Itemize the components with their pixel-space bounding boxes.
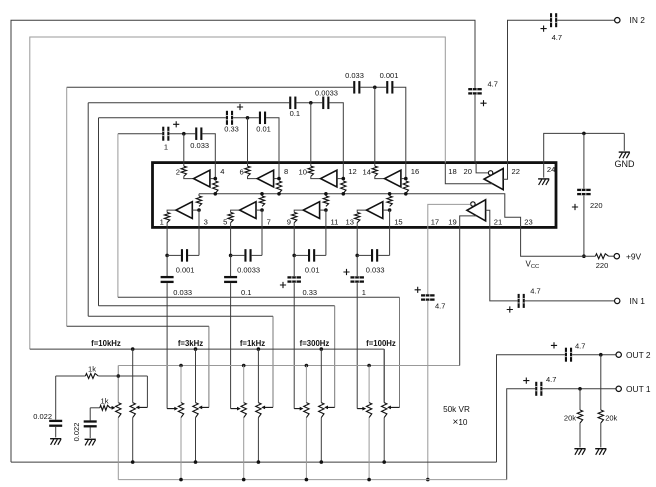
wire cap to pin 14 bbox=[360, 86, 386, 88]
label IN 2 bbox=[630, 15, 646, 25]
op-amp U1c (pins 10/12) bbox=[321, 170, 337, 187]
wire chain right seg bbox=[378, 254, 389, 256]
value label 0.033 bbox=[366, 265, 385, 274]
op-amp U1f (pins 5/7) bbox=[240, 202, 256, 219]
svg-text:0.1: 0.1 bbox=[290, 109, 300, 118]
node chain junction pin 1 bbox=[165, 254, 169, 258]
wire pot1 top (gray) bbox=[180, 366, 182, 403]
wiper arrow VR5A bbox=[387, 406, 399, 410]
node chain junction pin 13 bbox=[355, 254, 359, 258]
wire pot1 bottom (gray) bbox=[180, 418, 182, 480]
wire pin 5 input lead bbox=[230, 223, 232, 228]
wire pin 9 down to chain bbox=[293, 227, 295, 255]
terminal IN 2 bbox=[615, 18, 620, 23]
label Vcc bbox=[526, 260, 540, 271]
wire chain left seg bbox=[294, 254, 308, 256]
ground (20k OUT1) bbox=[574, 448, 585, 455]
svg-text:OUT 2: OUT 2 bbox=[626, 350, 651, 360]
svg-text:3: 3 bbox=[204, 217, 208, 226]
wire 1k-2 left lead bbox=[90, 407, 100, 409]
wire bus A end drop bbox=[383, 349, 385, 403]
svg-text:16: 16 bbox=[411, 167, 419, 176]
wire pin 10 input lead bbox=[310, 163, 312, 167]
capacitor 0.001 (gyrator, stage1b) bbox=[181, 249, 188, 262]
svg-text:f=3kHz: f=3kHz bbox=[178, 339, 203, 348]
label f=3kHz bbox=[178, 339, 203, 348]
ground GND bbox=[619, 151, 630, 158]
wire shunt upper lead bbox=[166, 255, 168, 276]
pin label 7 bbox=[267, 217, 271, 226]
capacitor 4.7 (OUT1 coupling) bbox=[535, 382, 542, 396]
value label 1k bbox=[88, 364, 96, 373]
value label 0.0033 bbox=[315, 88, 338, 97]
wire pin 20 lead bbox=[476, 163, 488, 173]
wire cap to IN2 terminal bbox=[557, 19, 614, 21]
resistor 20k (OUT1 load) bbox=[577, 410, 582, 423]
svg-text:14: 14 bbox=[363, 168, 371, 177]
terminal OUT 1 bbox=[616, 386, 621, 391]
wire 1k-1 to wiper riser bbox=[98, 375, 147, 377]
wire pin 13 input lead bbox=[356, 223, 358, 228]
potentiometer 50k VR4A bbox=[319, 403, 324, 418]
node junction pin 14 bbox=[373, 86, 377, 90]
wire cap to OUT2 terminal bbox=[572, 354, 616, 356]
wire pot2 bottom bbox=[257, 418, 259, 463]
value label 0.022 bbox=[33, 412, 52, 421]
svg-text:7: 7 bbox=[267, 217, 271, 226]
value label 0.001 bbox=[176, 265, 195, 274]
wire pot1 top (gray) bbox=[243, 366, 245, 403]
capacitor 4.7 (pin20 coupling) bbox=[468, 88, 482, 95]
wire pin 3 down lead bbox=[198, 227, 200, 255]
wire pin 6 to op-amp input bbox=[248, 176, 258, 178]
pin label 22 bbox=[512, 167, 520, 176]
wire chain right seg bbox=[315, 254, 326, 256]
wire op-amp output to pin 11 bbox=[320, 209, 326, 211]
op-amp U1g (pins 9/11) bbox=[303, 202, 319, 219]
wire pin 9 to op-amp input bbox=[294, 210, 303, 212]
wire 220 to +9V terminal bbox=[609, 255, 615, 257]
wire rail loop stage1 (descent) bbox=[399, 297, 401, 407]
value label 0.01 bbox=[256, 125, 271, 134]
wiper arrow VR2A bbox=[198, 406, 209, 410]
svg-text:10: 10 bbox=[299, 168, 307, 177]
resistor input R (pin 6) bbox=[245, 166, 250, 176]
value label 0.0033 bbox=[237, 265, 260, 274]
resistor input R (pin 2) bbox=[181, 166, 186, 176]
wire feedback R to bus bbox=[198, 194, 200, 196]
resistor input R (pin 5) bbox=[228, 212, 233, 222]
node chain junction pin 5 bbox=[229, 254, 233, 258]
resistor feedback R (pin 8) bbox=[276, 181, 281, 193]
svg-text:1k: 1k bbox=[88, 364, 96, 373]
wire pot2 top (block 1) bbox=[132, 349, 134, 403]
pin label 16 bbox=[411, 167, 419, 176]
node junction pin 10 bbox=[309, 101, 313, 105]
label x10 bbox=[453, 417, 468, 428]
node pin 7 output junction bbox=[260, 208, 264, 212]
wire pin 7 down lead bbox=[261, 227, 263, 255]
wire op-amp output to pin 8 bbox=[274, 178, 279, 180]
wire pin 23 to Vcc line bbox=[521, 227, 596, 256]
value label 0.01 bbox=[305, 265, 320, 274]
inverting input bubble (pin 17) bbox=[471, 202, 475, 206]
wire OUT1 bus riser bbox=[507, 389, 536, 480]
node bus B junction (block 4) bbox=[305, 364, 309, 368]
svg-text:4.7: 4.7 bbox=[530, 287, 540, 296]
wire shunt upper lead bbox=[293, 255, 295, 276]
pin label 9 bbox=[287, 217, 291, 226]
wire cap to pin 6 bbox=[233, 117, 259, 119]
wire cap to pin 2 bbox=[169, 133, 195, 135]
wiper arrow VR1A bbox=[136, 406, 148, 410]
wire pin 2 drop bbox=[183, 134, 185, 163]
value label 0.033 bbox=[345, 71, 364, 80]
node bus B junction (block 2) bbox=[179, 364, 183, 368]
wire feedback R to bus bbox=[261, 194, 263, 196]
wire chain stage1 left bbox=[118, 133, 162, 135]
value label 1k bbox=[101, 396, 109, 405]
wire internal feedback bus bbox=[199, 194, 521, 228]
wire cap to OUT1 terminal bbox=[542, 388, 616, 390]
wire feedback R to bus bbox=[405, 192, 407, 195]
wire pin 16 lead bbox=[405, 163, 407, 179]
wire op-amp output to pin 16 bbox=[401, 178, 406, 180]
value label 4.7 bbox=[488, 79, 498, 88]
wire pin 12 lead bbox=[342, 163, 344, 179]
capacitor 4.7 (IN2 coupling) bbox=[550, 13, 557, 27]
pin label 1 bbox=[160, 217, 164, 226]
pin label 15 bbox=[394, 217, 402, 226]
wire pin 10 to op-amp input bbox=[311, 176, 321, 178]
node OUT2-bus junction bbox=[257, 460, 261, 464]
svg-text:4.7: 4.7 bbox=[435, 302, 445, 311]
svg-text:220: 220 bbox=[590, 201, 603, 210]
polarity + (0.33uF) bbox=[237, 104, 243, 110]
wire pin 14 drop bbox=[374, 87, 376, 162]
svg-text:50k VR: 50k VR bbox=[443, 405, 470, 414]
node pin 11 output junction bbox=[324, 208, 328, 212]
wire op-amp output to pin 3 bbox=[192, 209, 199, 211]
wire tap column stage2b bbox=[230, 283, 232, 409]
wire op-amp output to pin 4 bbox=[210, 178, 215, 180]
label f=100Hz bbox=[366, 339, 396, 348]
potentiometer 50k VR5B bbox=[366, 403, 371, 418]
node OUT1-bus junction bbox=[305, 478, 309, 482]
ground (20k OUT2) bbox=[595, 448, 606, 455]
wire pot1 top (gray) bbox=[368, 366, 370, 403]
wiper arrow VR2B bbox=[167, 407, 178, 411]
capacitor 0.33 (coupling shunt, stage3b) bbox=[287, 276, 301, 283]
wire pot2 top (block 3) bbox=[257, 349, 259, 403]
wire pin 15 down lead bbox=[389, 227, 391, 255]
potentiometer 50k VR3A bbox=[256, 403, 261, 418]
wire pot2 top (block 2) bbox=[195, 349, 197, 403]
wire pin 11 down lead bbox=[325, 227, 327, 255]
value label 1 bbox=[164, 143, 168, 152]
polarity + (0.33uF) bbox=[280, 282, 286, 288]
terminal +9V bbox=[614, 254, 619, 259]
wire pot2 bottom bbox=[320, 418, 322, 463]
wire pin 13 down to chain bbox=[356, 227, 358, 255]
value label 220 bbox=[596, 261, 609, 270]
node OUT2-bus junction bbox=[194, 460, 198, 464]
wire pin 17 column (gray) bbox=[427, 227, 429, 294]
label f=1kHz bbox=[240, 339, 265, 348]
capacitor 0.01 (gyrator, stage2) bbox=[259, 112, 266, 125]
pin label 6 bbox=[239, 168, 243, 177]
capacitor 0.01 (gyrator, stage3b) bbox=[308, 249, 315, 262]
polarity + bbox=[541, 26, 547, 32]
resistor feedback R (pin 11) bbox=[323, 196, 328, 206]
wire bus A (band select, to pin18 loop) bbox=[30, 348, 384, 350]
node OUT2-bus junction bbox=[382, 460, 386, 464]
wire 0.022-2 lead bbox=[89, 408, 91, 421]
wire chain right seg bbox=[252, 254, 262, 256]
polarity + (1uF) bbox=[343, 269, 349, 275]
wire pin 2 input lead bbox=[183, 163, 185, 167]
resistor feedback R (pin 12) bbox=[341, 181, 346, 193]
wiper arrow VR4A bbox=[324, 406, 335, 410]
node bus junction pin 16 bbox=[404, 192, 408, 196]
wire pin 13 to op-amp input bbox=[357, 210, 366, 212]
pin label 4 bbox=[220, 167, 224, 176]
resistor input R (pin 14) bbox=[372, 166, 377, 176]
node OUT2 junction bbox=[599, 353, 603, 357]
pin label 11 bbox=[331, 217, 339, 226]
wire feedback R to bus bbox=[278, 192, 280, 195]
node OUT1 junction bbox=[578, 387, 582, 391]
value label 4.7 bbox=[435, 302, 445, 311]
resistor input R (pin 9) bbox=[292, 212, 297, 222]
wire chain left seg bbox=[357, 254, 371, 256]
wiper arrow VR4B bbox=[294, 407, 303, 411]
wire rail loop stage1 (horizontal) bbox=[118, 296, 400, 298]
svg-text:f=10kHz: f=10kHz bbox=[91, 339, 121, 348]
capacitor 0.033 (gyrator, stage1) bbox=[195, 127, 202, 140]
node bus junction pin 12 bbox=[342, 192, 346, 196]
node junction pin 2 bbox=[182, 132, 186, 136]
capacitor 0.022 (ch-B) bbox=[84, 420, 97, 427]
wire pot1 bottom (gray) bbox=[243, 418, 245, 480]
node bus junction pin 4 bbox=[214, 192, 218, 196]
wire shunt upper lead bbox=[230, 255, 232, 276]
pin label 10 bbox=[299, 168, 307, 177]
node pin 16 output junction bbox=[404, 177, 408, 181]
wire pin 4 lead bbox=[214, 163, 216, 179]
svg-text:0.01: 0.01 bbox=[305, 265, 320, 274]
capacitor 4.7 (pin17 coupling) bbox=[421, 294, 435, 301]
wire pot1 top (gray) bbox=[305, 366, 307, 403]
wire pin 8 lead bbox=[278, 163, 280, 179]
wire pin 21 to buffer output bbox=[486, 210, 490, 227]
value label 0.022 (rotated) bbox=[72, 423, 81, 442]
potentiometer 50k VR2B bbox=[178, 403, 183, 418]
wire pin17 cap down to OUT1 bus (gray) bbox=[427, 301, 429, 480]
svg-text:0.033: 0.033 bbox=[190, 141, 209, 150]
node OUT2-bus junction bbox=[131, 460, 135, 464]
svg-text:IN 2: IN 2 bbox=[630, 15, 646, 25]
svg-text:IN 1: IN 1 bbox=[630, 296, 646, 306]
svg-text:12: 12 bbox=[348, 167, 356, 176]
ground (0.022-2) bbox=[85, 439, 96, 446]
pin label 24 bbox=[547, 165, 555, 174]
wire bus junction bbox=[260, 192, 264, 196]
wire bus B left drop bbox=[117, 366, 119, 403]
wire 20k to ground bbox=[600, 423, 602, 447]
wire 0.022-1 lead bbox=[55, 376, 57, 420]
svg-text:0.0033: 0.0033 bbox=[315, 88, 338, 97]
svg-text:f=100Hz: f=100Hz bbox=[366, 339, 396, 348]
potentiometer 50k VR2A bbox=[193, 403, 198, 418]
resistor input R (pin 13) bbox=[355, 212, 360, 222]
wire op-amp output to pin 15 bbox=[383, 209, 390, 211]
label 50k VR bbox=[443, 405, 470, 414]
pin label 8 bbox=[284, 167, 288, 176]
resistor 1k (ch-B 10kHz) bbox=[100, 405, 110, 410]
op-amp U1b (pins 6/8) bbox=[257, 170, 273, 187]
value label 220 bbox=[590, 201, 603, 210]
capacitor 0.033 (coupling shunt, stage1b) bbox=[161, 276, 174, 283]
wire pin 1 to op-amp input bbox=[167, 210, 176, 212]
wire chain stage3 left bbox=[88, 102, 289, 104]
node bus B junction (block 5) bbox=[367, 364, 371, 368]
wire rail loop stage3 (left vertical) bbox=[87, 103, 89, 316]
ground (0.022-1) bbox=[50, 438, 61, 445]
label OUT 2 bbox=[626, 350, 651, 360]
potentiometer 50k VR4B bbox=[304, 403, 309, 418]
wire feedback R to bus bbox=[325, 194, 327, 196]
terminal IN 1 bbox=[615, 298, 620, 303]
pin label 17 bbox=[431, 218, 439, 227]
pin label 3 bbox=[204, 217, 208, 226]
svg-text:15: 15 bbox=[394, 217, 402, 226]
wire pin 3 down lead bbox=[198, 210, 200, 227]
wire 1k-1 left lead bbox=[56, 375, 86, 377]
svg-text:1k: 1k bbox=[101, 396, 109, 405]
node OUT1-bus junction bbox=[242, 478, 246, 482]
wire pin 14 to op-amp input bbox=[375, 176, 385, 178]
node +9V line junction bbox=[582, 254, 586, 258]
node pin 15 output junction bbox=[388, 208, 392, 212]
wire pot1 bottom (gray) bbox=[305, 418, 307, 480]
wire 0.022-2 to ground bbox=[89, 428, 91, 439]
wire pin 2 to op-amp input bbox=[184, 176, 194, 178]
wire pin 19 lead bbox=[460, 216, 477, 228]
svg-text:6: 6 bbox=[239, 168, 243, 177]
pin label 23 bbox=[524, 218, 532, 227]
svg-text:2: 2 bbox=[176, 168, 180, 177]
node bus A junction (block 3) bbox=[257, 347, 261, 351]
capacitor 0.0033 (gyrator, stage3) bbox=[322, 97, 329, 110]
wiper arrow VR3A bbox=[261, 406, 273, 410]
op-amp U1h (pins 13/15) bbox=[367, 202, 383, 219]
wire pin 6 drop bbox=[247, 118, 249, 163]
node GND rail junction bbox=[582, 132, 586, 136]
op-amp U1a (pins 2/4) bbox=[194, 170, 210, 187]
op-amp buffer U1i (pins 18/20/22) bbox=[484, 169, 503, 190]
wire pot2 bottom bbox=[132, 418, 134, 463]
svg-text:0.01: 0.01 bbox=[256, 125, 271, 134]
wiper arrow VR5B bbox=[357, 407, 366, 411]
svg-text:1: 1 bbox=[160, 217, 164, 226]
value label 0.1 bbox=[241, 288, 251, 297]
svg-text:1: 1 bbox=[362, 288, 366, 297]
svg-text:0.033: 0.033 bbox=[366, 265, 385, 274]
wire pin 9 input lead bbox=[293, 223, 295, 228]
resistor feedback R (pin 7) bbox=[259, 196, 264, 206]
svg-text:×10: ×10 bbox=[453, 417, 468, 428]
resistor feedback R (pin 3) bbox=[196, 196, 201, 206]
resistor input R (pin 1) bbox=[164, 212, 169, 222]
wire OUT2 to 20k bbox=[600, 355, 602, 410]
node bus A junction (block 1) bbox=[131, 347, 135, 351]
svg-text:18: 18 bbox=[448, 167, 456, 176]
polarity + bbox=[572, 204, 578, 210]
capacitor 1 (coupling, stage1) bbox=[162, 127, 169, 141]
wire GND drop bbox=[623, 133, 625, 150]
node bus B junction (block 3) bbox=[242, 364, 246, 368]
wire tap column stage4b bbox=[356, 283, 358, 409]
wire pot1 bottom (gray) bbox=[368, 418, 370, 480]
svg-text:0.022: 0.022 bbox=[33, 412, 52, 421]
potentiometer 50k VR1A bbox=[130, 403, 135, 418]
svg-text:0.001: 0.001 bbox=[176, 265, 195, 274]
value label 0.33 bbox=[302, 288, 317, 297]
node bus A junction (block 2) bbox=[194, 347, 198, 351]
label IN 1 bbox=[630, 296, 646, 306]
inverting input bubble (pin 20) bbox=[488, 171, 492, 175]
wire feedback R to bus bbox=[389, 194, 391, 196]
node pin 8 output junction bbox=[277, 177, 281, 181]
svg-text:f=300Hz: f=300Hz bbox=[300, 339, 330, 348]
wire chain left seg bbox=[167, 254, 181, 256]
label f=300Hz bbox=[300, 339, 330, 348]
svg-text:+9V: +9V bbox=[626, 252, 642, 262]
wire tap column stage1b bbox=[166, 283, 168, 409]
value label 4.7 bbox=[546, 375, 556, 384]
pin label 18 bbox=[448, 167, 456, 176]
wire pin 15 down lead bbox=[389, 210, 391, 227]
wire pot2 bottom bbox=[383, 418, 385, 463]
svg-text:24: 24 bbox=[547, 165, 555, 174]
svg-text:0.33: 0.33 bbox=[302, 288, 317, 297]
node pin17/OUT1 bus junction bbox=[426, 478, 430, 482]
wire cap to pin 12 bbox=[329, 103, 343, 163]
svg-text:4.7: 4.7 bbox=[575, 341, 585, 350]
wire bus junction bbox=[388, 192, 392, 196]
potentiometer 50k VR1B bbox=[116, 403, 121, 418]
potentiometer 50k VR5A bbox=[382, 403, 387, 418]
node pin 3 output junction bbox=[197, 208, 201, 212]
wire pin20 cap to IC bbox=[474, 95, 476, 163]
wire feedback R to bus bbox=[342, 192, 344, 195]
polarity + bbox=[480, 100, 486, 106]
op-amp U1d (pins 14/16) bbox=[385, 170, 401, 187]
svg-text:20k: 20k bbox=[605, 414, 617, 423]
svg-text:4.7: 4.7 bbox=[488, 79, 498, 88]
wiper arrow VR3B bbox=[231, 407, 241, 411]
pin label 2 bbox=[176, 168, 180, 177]
potentiometer 50k VR3B bbox=[241, 403, 246, 418]
wire 0.022 to ground bbox=[55, 427, 57, 438]
capacitor 0.1 (coupling, stage3) bbox=[289, 97, 296, 110]
wire pin 22 to buffer output bbox=[503, 163, 507, 180]
node bus junction pin 8 bbox=[277, 192, 281, 196]
wire pin 1 input lead bbox=[166, 223, 168, 228]
wire pot2 top (block 5) bbox=[383, 349, 385, 403]
wire pin 1 down to chain bbox=[166, 227, 168, 255]
